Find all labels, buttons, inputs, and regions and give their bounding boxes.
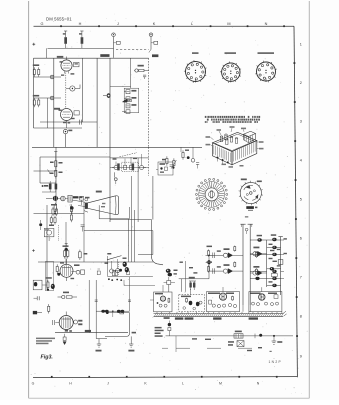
wire bus drops bbox=[157, 312, 282, 314]
svg-text:3: 3 bbox=[300, 119, 302, 123]
grid capacitor C1 bbox=[50, 75, 54, 79]
wire rail x82 bbox=[81, 58, 83, 122]
wire ground bus left bbox=[55, 330, 128, 333]
resistor pair R11 R12 bbox=[49, 216, 56, 226]
wire output row bbox=[96, 310, 129, 317]
wire grid V2 bbox=[34, 97, 62, 99]
IF can outline bbox=[124, 58, 139, 112]
wire left entry bbox=[179, 261, 209, 292]
detector chain bbox=[164, 269, 178, 292]
resistor R21 bbox=[48, 304, 50, 313]
wire rail x84 bbox=[83, 202, 85, 262]
wire switch frame bbox=[107, 256, 155, 286]
transformer X1 bbox=[228, 341, 244, 347]
dropper resistor RD1 bbox=[63, 31, 67, 48]
dropper resistor RD2 bbox=[79, 31, 84, 48]
tuning shaft line A bbox=[240, 224, 245, 305]
grid capacitor C2 bbox=[50, 96, 54, 100]
wire rail x97 bbox=[96, 58, 98, 147]
loudspeaker horn bbox=[84, 191, 119, 215]
chassis callout labels bbox=[206, 126, 264, 168]
wire cathode row bbox=[40, 121, 97, 123]
module box B0 bbox=[154, 292, 172, 312]
wire rail x209 bbox=[206, 255, 211, 279]
IF trimmer T1 bbox=[124, 90, 136, 94]
grid letters top bbox=[41, 22, 268, 26]
svg-text:J: J bbox=[107, 381, 109, 385]
tone switch lever bbox=[114, 172, 117, 184]
ground symbol GND2 bbox=[272, 335, 283, 344]
svg-text:8: 8 bbox=[300, 314, 302, 318]
wire rail x66 mid bbox=[65, 222, 67, 266]
capacitor C11 bbox=[34, 296, 40, 300]
bottom border ruler bbox=[33, 376, 297, 378]
resistor pair R14 R15 bbox=[63, 244, 69, 259]
decoupling box bbox=[273, 260, 283, 265]
input connector J1 bbox=[33, 311, 42, 314]
wire speaker line bbox=[106, 311, 130, 314]
plus mark stage3 bbox=[32, 249, 35, 252]
divider tap bbox=[70, 205, 74, 214]
lamp network RC1 bbox=[207, 246, 215, 258]
resistor R7c bbox=[54, 203, 56, 215]
electrolytic C5 bbox=[63, 129, 72, 147]
ground symbol GND1 bbox=[128, 336, 134, 351]
rung y285 choke L5 bbox=[267, 284, 281, 287]
resistor chain R6 bbox=[50, 152, 63, 179]
wire bottom left stub bbox=[34, 127, 83, 129]
svg-text:M: M bbox=[227, 22, 230, 26]
tube V1 bbox=[57, 56, 79, 76]
choke L2 bbox=[271, 234, 277, 241]
svg-text:N: N bbox=[265, 22, 268, 26]
svg-text:Fig3.: Fig3. bbox=[41, 355, 54, 361]
page edge right bbox=[308, 1, 310, 398]
svg-text:5: 5 bbox=[300, 197, 302, 201]
coupling element C3 bbox=[66, 85, 80, 92]
wire bundle to band switch bbox=[129, 176, 135, 262]
resistor pair R1 R2 bbox=[33, 64, 40, 76]
padder trimmer bbox=[80, 197, 90, 206]
tube socket diagram P1 bbox=[184, 52, 207, 83]
wire dashed rail between V1 V2 bbox=[65, 73, 67, 108]
bypass cap C9 bbox=[39, 220, 42, 230]
svg-text:J: J bbox=[117, 22, 119, 26]
wire row y262 bbox=[38, 261, 153, 263]
tube socket diagram P3 bbox=[255, 52, 277, 82]
svg-text:7: 7 bbox=[300, 275, 302, 279]
svg-text:9: 9 bbox=[300, 354, 302, 358]
wire dashed heater row bbox=[162, 347, 252, 349]
tuning shaft line B bbox=[248, 224, 253, 305]
rung y271 resistor R23 bbox=[250, 268, 277, 276]
rung y268 choke L4 bbox=[267, 267, 281, 270]
detector diode D1 bbox=[122, 99, 131, 102]
rectifier component bbox=[168, 321, 171, 336]
plus polarity mark bbox=[32, 43, 35, 46]
pickup terminal block bbox=[156, 162, 173, 175]
wire rail x96 bbox=[96, 280, 107, 339]
sheet number 1N2P bbox=[269, 351, 282, 364]
antenna jack J3 bbox=[149, 33, 158, 53]
wire cross y230 bbox=[84, 230, 153, 232]
rung y254 resistor R22 bbox=[250, 250, 280, 258]
module box B2 bbox=[207, 292, 240, 312]
chassis isometric view bbox=[213, 131, 257, 165]
band switch S1 bbox=[112, 153, 146, 172]
sheet title DM 5655-01 bbox=[46, 16, 72, 21]
wire rail x138 bbox=[137, 158, 139, 222]
tuning indicator bbox=[245, 216, 248, 234]
tube V3 bbox=[56, 259, 85, 281]
resistor R5 with meter bbox=[134, 65, 149, 72]
oscillator can bbox=[44, 228, 54, 241]
capacitor C4 bbox=[80, 120, 82, 125]
resistor R20 with meter bbox=[58, 292, 78, 299]
figure caption Fig3 bbox=[41, 355, 54, 361]
svg-text:G: G bbox=[41, 22, 44, 26]
pilot lamp LP4 bbox=[250, 266, 266, 276]
pilot lamp LP1 bbox=[209, 246, 243, 258]
capacitor C8 bbox=[170, 165, 173, 167]
wire B+ rail bbox=[278, 237, 282, 295]
chassis ground bus bbox=[154, 311, 287, 316]
wire dashed AVC bbox=[58, 225, 60, 241]
label bus 5xBb bbox=[152, 54, 158, 57]
page edge left bbox=[28, 1, 30, 398]
wire row y213 bbox=[34, 213, 85, 215]
grid letters bottom bbox=[32, 381, 260, 385]
terminal strip text band bbox=[205, 116, 260, 123]
top border ruler bbox=[34, 25, 295, 27]
resistor R24 bbox=[234, 331, 243, 339]
speaker enclosure outline bbox=[99, 205, 129, 219]
electrolytic can outline bbox=[45, 262, 55, 291]
wire rail x47 bbox=[46, 205, 48, 290]
pilot lamp LP2 bbox=[209, 261, 243, 273]
svg-text:G: G bbox=[32, 381, 35, 385]
wire section divider y147 bbox=[32, 146, 202, 148]
wire rail x56 bbox=[55, 147, 57, 205]
wire junction feed bbox=[206, 255, 213, 257]
AF input box bbox=[33, 280, 47, 290]
wire band switch row bbox=[110, 167, 149, 169]
IF trimmer T2 bbox=[124, 97, 136, 101]
antenna jack J2 bbox=[112, 33, 121, 58]
svg-text:1: 1 bbox=[300, 42, 302, 46]
wire feed y48 bbox=[47, 48, 149, 58]
wire rail x47 bbox=[47, 98, 49, 128]
wire grid V1 bbox=[34, 76, 62, 78]
wire mid rail bbox=[266, 240, 268, 287]
coupling cap C7 bbox=[162, 156, 168, 165]
ladder side stubs bbox=[269, 238, 287, 282]
ground symbol GND0 bbox=[96, 339, 102, 352]
wire to IF can bbox=[110, 86, 131, 88]
wire y147 end components bbox=[181, 147, 199, 168]
svg-text:1 N 2 P: 1 N 2 P bbox=[269, 360, 282, 364]
module box B1 bbox=[179, 295, 205, 312]
wire AVC row y240 bbox=[250, 239, 280, 241]
right border ruler bbox=[293, 26, 298, 377]
resistor pair R17 bbox=[189, 277, 196, 290]
choke L1 bbox=[257, 235, 262, 242]
wire left rail bbox=[33, 58, 35, 128]
polarized cap C12 bbox=[63, 334, 66, 345]
wire dashed rail x148 bbox=[148, 58, 150, 176]
grid numbers right bbox=[300, 42, 302, 358]
page edge bottom bbox=[29, 397, 310, 399]
svg-text:K: K bbox=[153, 22, 156, 26]
svg-text:L: L bbox=[182, 381, 184, 385]
resistor pair R3 R4 bbox=[33, 95, 40, 107]
resistor pair R7a R7b bbox=[44, 181, 57, 193]
misc labels lower bbox=[192, 338, 262, 351]
wire rail x153 bbox=[152, 176, 154, 220]
wire speaker feed bbox=[72, 200, 85, 207]
svg-text:L: L bbox=[191, 22, 193, 26]
wire box feeds bbox=[150, 285, 262, 312]
fuse F1 bbox=[255, 334, 262, 339]
wire mains row bbox=[166, 335, 293, 337]
wire rail x110 bbox=[109, 58, 111, 222]
svg-text:DM 5655=01: DM 5655=01 bbox=[46, 16, 72, 21]
rotary switch wafer bbox=[239, 179, 263, 206]
power label stack bbox=[155, 327, 164, 337]
band switch S2 bbox=[97, 253, 129, 281]
bus labels bbox=[164, 317, 258, 319]
wire grid row y171 bbox=[34, 170, 56, 173]
grid cap connector V1 bbox=[103, 93, 111, 98]
wire riser to rectifier bbox=[152, 220, 164, 265]
dial drum gear bbox=[195, 178, 227, 210]
resistor R16 bbox=[79, 250, 88, 260]
resistor pair R18 R19 bbox=[46, 277, 52, 291]
rung y278 chokes bbox=[250, 277, 280, 280]
tube V4 output bbox=[53, 312, 83, 332]
resistor pair R9 R10 bbox=[51, 204, 58, 216]
wire rail x89 bbox=[88, 280, 90, 333]
wire bracket to speaker bbox=[105, 313, 136, 337]
note text block bbox=[36, 338, 55, 345]
label bus 5xBC bbox=[100, 54, 109, 57]
trimmer T4 bbox=[122, 110, 130, 114]
svg-text:2: 2 bbox=[300, 81, 302, 85]
tube V2 bbox=[54, 108, 79, 128]
svg-text:4: 4 bbox=[300, 158, 302, 162]
pilot lamp LP3 bbox=[250, 247, 266, 257]
svg-text:M: M bbox=[219, 381, 222, 385]
capacitor C10 bbox=[81, 225, 85, 232]
wire top bus bbox=[34, 57, 149, 59]
rung y247 choke L3 bbox=[267, 246, 281, 249]
wire rail x54 bbox=[53, 58, 55, 147]
wire cross y219 bbox=[110, 219, 152, 221]
wire risers to output row bbox=[95, 277, 131, 311]
svg-text:H: H bbox=[79, 22, 82, 26]
wire stage2 box bbox=[40, 157, 149, 183]
wire row y192 bbox=[42, 191, 56, 193]
wire corner y254 bbox=[138, 231, 153, 255]
module box B3 bbox=[249, 292, 282, 312]
svg-text:6: 6 bbox=[300, 236, 302, 240]
tube socket diagram P2 bbox=[220, 52, 241, 82]
lamp network RC2 bbox=[207, 261, 215, 273]
wire row y186 bbox=[42, 185, 49, 187]
capacitor C6 bbox=[143, 75, 146, 79]
IF trimmer T3 bbox=[126, 104, 136, 108]
wire lower right stub bbox=[175, 336, 177, 352]
wafer label bbox=[246, 206, 257, 211]
resistor chain R13 bbox=[70, 204, 72, 222]
resistor R8 bbox=[171, 158, 176, 168]
volume potentiometer bbox=[46, 195, 83, 202]
